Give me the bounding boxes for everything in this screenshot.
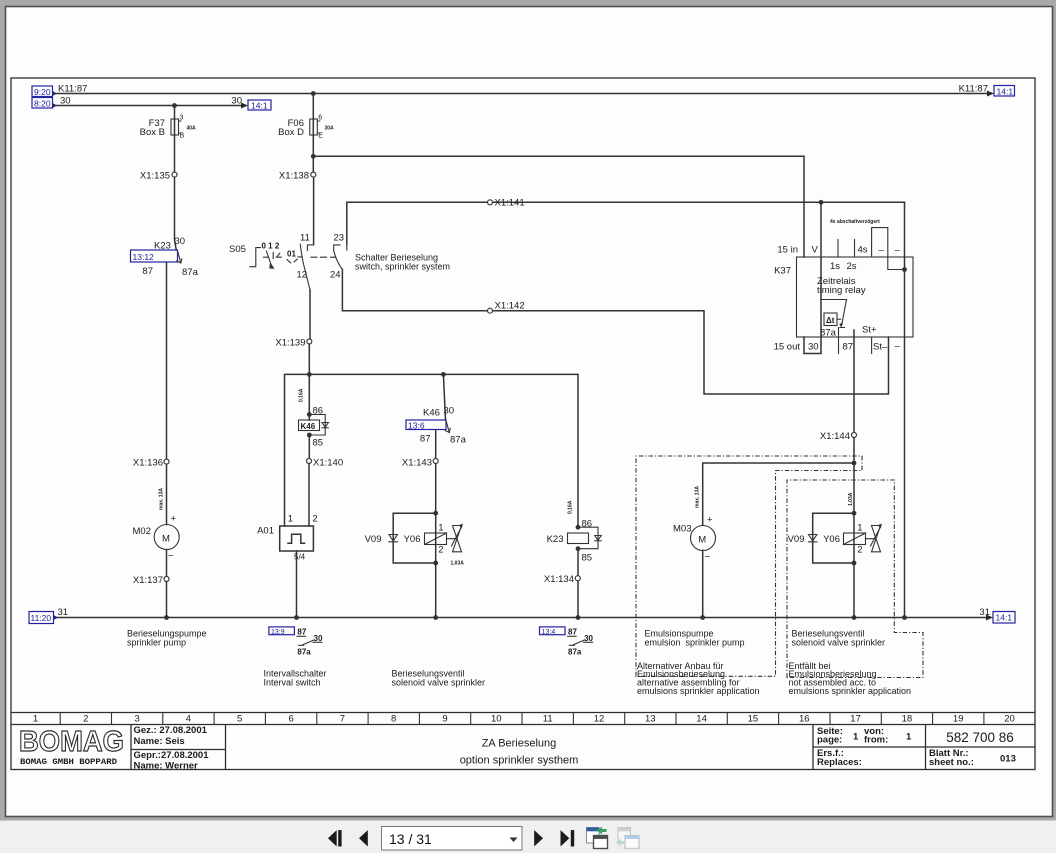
label 01 mechanical link [287, 250, 297, 263]
svg-text:2: 2 [857, 545, 862, 556]
cross-reference box 14:1 bottom [993, 612, 1015, 624]
terminal X1:142 [488, 308, 493, 313]
node rail right drop [902, 615, 907, 620]
svg-text:1: 1 [33, 714, 38, 725]
wire fuse F06 down to X1:138 [312, 135, 314, 172]
svg-text:30A: 30A [325, 126, 335, 132]
wire motor M02 to X1:137 [166, 550, 168, 577]
node valve2 bottom [852, 561, 857, 566]
svg-text:emulsions sprinkler applicatio: emulsions sprinkler application [789, 686, 912, 696]
BOMAG logo [19, 726, 124, 767]
svg-text:13:4: 13:4 [542, 629, 556, 636]
svg-text:14:1: 14:1 [997, 87, 1014, 97]
node valve1 bottom [433, 561, 438, 566]
wire valve1 to ground rail [435, 563, 437, 618]
svg-text:M: M [162, 534, 170, 545]
svg-text:X1:136: X1:136 [133, 458, 163, 469]
svg-text:013: 013 [1000, 754, 1016, 765]
svg-text:3: 3 [134, 714, 139, 725]
relay coil K46 with suppression diode [299, 415, 329, 436]
wire S05 pin 24 to X1:142 run [342, 270, 888, 395]
svg-text:11:20: 11:20 [31, 613, 52, 623]
node F37 on 30 rail [172, 103, 177, 108]
node X1:141 to relay V pin [819, 200, 824, 205]
svg-text:switch, sprinkler system: switch, sprinkler system [355, 262, 450, 272]
wire fuse F37 to X1:135 [174, 135, 176, 172]
svg-text:X1:135: X1:135 [140, 171, 170, 182]
svg-text:Interval switch: Interval switch [264, 678, 321, 688]
svg-text:40A: 40A [187, 126, 197, 132]
svg-text:30: 30 [314, 634, 323, 643]
svg-text:87: 87 [420, 434, 431, 445]
terminal X1:143 [433, 459, 438, 464]
node branch to timing relay supply [311, 154, 316, 159]
drawing frame border [11, 78, 1035, 770]
svg-text:Y06: Y06 [823, 534, 840, 545]
node K46 coil bottom [307, 433, 312, 438]
wire S05 pin 23 up to X1:141 line [346, 202, 348, 244]
toolbar next page button [534, 830, 543, 846]
svg-text:4: 4 [186, 714, 191, 725]
relay coil K23 with suppression diode [547, 527, 602, 549]
svg-text:87a: 87a [820, 328, 837, 339]
svg-text:11: 11 [543, 714, 553, 725]
node rail valve1 [433, 615, 438, 620]
svg-text:–: – [879, 245, 885, 256]
node rail valve2 [852, 615, 857, 620]
cross-reference box 14:1 mid [248, 100, 271, 111]
svg-text:4s: 4s [858, 245, 868, 256]
svg-text:01: 01 [287, 250, 296, 259]
cross-reference box 9:20 [32, 86, 57, 97]
node K46 coil branch [307, 372, 312, 377]
terminal X1:137 [164, 577, 169, 582]
svg-text:9: 9 [442, 714, 447, 725]
svg-text:10: 10 [491, 714, 502, 725]
motor M02 [133, 514, 180, 562]
svg-text:17: 17 [850, 714, 861, 725]
node K46 contact branch [441, 372, 446, 377]
svg-text:85: 85 [313, 438, 324, 449]
mechanical link dashes [311, 256, 336, 258]
terminal X1:141 [488, 200, 493, 205]
arrow into 14:1 mid [241, 103, 248, 109]
svg-text:8: 8 [391, 714, 396, 725]
toolbar last page button [561, 830, 575, 846]
svg-text:S05: S05 [229, 244, 246, 255]
svg-text:solenoid valve sprinkler: solenoid valve sprinkler [792, 638, 886, 648]
relay bottom pin St- stub [871, 337, 873, 354]
terminal X1:140 [307, 459, 312, 464]
relay pin stub 1s [837, 240, 839, 258]
toolbar next view icon [616, 828, 640, 849]
svg-text:A01: A01 [257, 526, 274, 537]
wire K11:87 top rail [53, 93, 989, 95]
wire X1:138 to switch S05 pin 11 [313, 177, 315, 244]
svg-text:St+: St+ [862, 325, 877, 336]
svg-text:1: 1 [857, 523, 862, 534]
wire X1:140 to A01 pin 2 [308, 464, 310, 526]
relay bottom pin labels [774, 341, 901, 353]
node valve2 top [852, 511, 857, 516]
svg-text:582 700 86: 582 700 86 [946, 730, 1014, 745]
svg-text:V09: V09 [365, 534, 382, 545]
svg-text:max. 13A: max. 13A [695, 486, 701, 508]
wire to relay 15in (top right run) [313, 156, 804, 257]
svg-text:K46: K46 [301, 422, 316, 431]
svg-text:24: 24 [330, 270, 341, 281]
wire M03 feed line [703, 463, 854, 525]
wire X1:144 down right branch [853, 438, 855, 618]
svg-text:–: – [895, 341, 901, 352]
node rail A01 [294, 615, 299, 620]
motor M03 [673, 515, 715, 563]
column ticks [60, 713, 984, 725]
svg-text:6: 6 [318, 115, 322, 122]
node K23 coil top [576, 525, 581, 530]
svg-text:30: 30 [175, 236, 186, 247]
svg-text:X1:140: X1:140 [313, 458, 343, 469]
svg-text:1: 1 [438, 523, 443, 534]
node F06 on K11:87 rail [311, 91, 316, 96]
svg-text:Box B: Box B [140, 127, 165, 138]
wire right side drop from X1:141 line [904, 202, 906, 617]
node rail K23 [576, 615, 581, 620]
timing relay K37 box [797, 257, 914, 337]
dashed box not assembled valve2 [787, 480, 923, 678]
terminal X1:135 [172, 172, 177, 177]
svg-text:–: – [895, 245, 901, 256]
svg-text:87a: 87a [182, 267, 199, 278]
node step wire to minus rail [902, 267, 907, 272]
svg-text:2: 2 [438, 545, 443, 556]
wire K46 coil to X1:140 [308, 435, 310, 459]
svg-text:Name: Werner: Name: Werner [134, 761, 199, 772]
node rail M02 [164, 615, 169, 620]
switch S05 rotary actuator [229, 242, 281, 269]
interval switch A01 [257, 514, 318, 562]
svg-text:14:1: 14:1 [996, 613, 1013, 623]
terminal X1:139 [307, 339, 312, 344]
relay pin 30 U-loop [804, 337, 821, 354]
wire rail to K46 contact [443, 374, 445, 420]
svg-text:−: − [168, 551, 174, 562]
relay inside labels [817, 261, 866, 296]
valve1 parallel loop [393, 513, 436, 563]
svg-text:16: 16 [799, 714, 810, 725]
svg-text:87a: 87a [568, 648, 582, 657]
svg-text:St–: St– [873, 342, 888, 353]
svg-text:30: 30 [231, 96, 242, 107]
svg-text:87: 87 [142, 266, 153, 277]
terminal X1:134 [575, 576, 580, 581]
svg-text:15 in: 15 in [777, 245, 798, 256]
wire X1:139 down to distribution rail [308, 344, 310, 374]
wire A01 output to ground rail [296, 551, 298, 618]
svg-text:87a: 87a [450, 435, 467, 446]
svg-text:3: 3 [180, 115, 184, 122]
svg-text:K37: K37 [774, 266, 791, 277]
svg-text:20: 20 [1004, 714, 1015, 725]
svg-text:emulsion sprinkler pump: emulsion sprinkler pump [645, 638, 745, 648]
svg-text:2: 2 [83, 714, 88, 725]
relay contact K23 13:12 [131, 236, 199, 278]
title block Gez row [134, 725, 210, 772]
relay top pin labels [777, 245, 900, 256]
svg-text:15: 15 [748, 714, 759, 725]
valve symbol valve1 [447, 524, 465, 567]
valve symbol valve2 [866, 524, 882, 552]
svg-text:page:: page: [817, 735, 842, 746]
svg-text:X1:143: X1:143 [402, 458, 432, 469]
toolbar background [0, 821, 1056, 853]
svg-text:1,03A: 1,03A [451, 561, 465, 567]
relay pin stub 2s [854, 240, 856, 258]
svg-text:M03: M03 [673, 524, 691, 535]
svg-text:Δt: Δt [826, 316, 835, 325]
wire 30 rail [53, 105, 242, 107]
svg-text:87: 87 [297, 628, 306, 637]
arrow into 14:1 bottom right [986, 615, 993, 621]
svg-text:86: 86 [582, 519, 593, 530]
svg-text:13:12: 13:12 [133, 252, 155, 262]
relay bottom pin 87 stub [838, 337, 840, 354]
wire K46 contact 87 to X1:143 [435, 430, 437, 459]
wire M03 to ground rail [702, 551, 704, 618]
svg-text:1s: 1s [830, 261, 840, 272]
toolbar previous view icon [587, 827, 608, 849]
relay 4s step wire [872, 228, 905, 270]
wire 30 rail to fuse F37 [174, 106, 176, 120]
svg-text:solenoid valve sprinkler: solenoid valve sprinkler [392, 678, 486, 688]
svg-text:Name: Seis: Name: Seis [134, 736, 185, 747]
cross-reference box 8:20 [32, 98, 57, 109]
svg-text:23: 23 [334, 233, 345, 244]
terminal X1:138 [311, 172, 316, 177]
svg-text:option sprinkler systhem: option sprinkler systhem [460, 755, 579, 767]
svg-text:85: 85 [582, 553, 593, 564]
svg-text:14:1: 14:1 [251, 101, 268, 111]
toolbar previous page button [359, 830, 368, 846]
fuse F06 Box D [278, 115, 334, 140]
svg-text:14: 14 [696, 714, 707, 725]
svg-text:X1:134: X1:134 [544, 574, 574, 585]
svg-text:13: 13 [645, 714, 656, 725]
svg-text:Box D: Box D [278, 127, 304, 138]
column numbers [33, 714, 1015, 725]
node rail M03 [700, 615, 705, 620]
contact cross-reference 13:4 [540, 627, 594, 657]
svg-text:1: 1 [853, 732, 859, 743]
svg-text:Gepr.:27.08.2001: Gepr.:27.08.2001 [134, 750, 210, 761]
toolbar page combo box [382, 827, 523, 851]
title block Seite/page [817, 726, 1016, 768]
svg-text:12: 12 [297, 270, 308, 281]
svg-text:30: 30 [60, 96, 71, 107]
svg-text:E: E [318, 133, 323, 140]
svg-text:+: + [171, 514, 177, 525]
svg-text:X1:139: X1:139 [275, 338, 305, 349]
terminal X1:136 [164, 459, 169, 464]
svg-text:X1:144: X1:144 [820, 431, 850, 442]
svg-text:K46: K46 [423, 408, 440, 419]
svg-text:13:9: 13:9 [271, 629, 285, 636]
svg-text:Y06: Y06 [404, 534, 421, 545]
wire X1:134 to ground rail [577, 581, 579, 618]
dashed box alternative assembly M03 [636, 456, 862, 676]
switch S05 contact 11-12 [297, 233, 314, 291]
contact cross-reference 13:9 [269, 627, 323, 657]
wire contact K23 87 to X1:136 [166, 263, 168, 460]
svg-text:X1:142: X1:142 [495, 301, 525, 312]
svg-text:13 / 31: 13 / 31 [389, 831, 432, 847]
wire X1:141 line [347, 201, 905, 203]
svg-text:K23: K23 [547, 534, 564, 545]
svg-text:emulsions sprinkler applicatio: emulsions sprinkler application [637, 686, 760, 696]
relay timer contact [820, 300, 847, 339]
svg-text:15 out: 15 out [774, 342, 801, 353]
svg-text:K11:87: K11:87 [58, 84, 87, 95]
wire rail to K46 coil [308, 374, 310, 420]
svg-text:87: 87 [568, 628, 577, 637]
svg-text:87a: 87a [297, 648, 311, 657]
svg-text:8:20: 8:20 [34, 99, 51, 109]
wire X1:135 to contact K23 [175, 177, 177, 250]
node M03 feed [852, 461, 857, 466]
node K46 coil top [307, 412, 312, 417]
terminal X1:144 [852, 433, 857, 438]
svg-text:1: 1 [288, 514, 293, 525]
svg-text:4s abschaltverzögert: 4s abschaltverzögert [830, 219, 880, 225]
toolbar first page button [328, 830, 342, 846]
svg-text:5: 5 [237, 714, 242, 725]
svg-text:0,16A: 0,16A [568, 500, 574, 514]
svg-text:BOMAG: BOMAG [19, 726, 124, 758]
svg-text:Gez.: 27.08.2001: Gez.: 27.08.2001 [134, 725, 208, 736]
svg-text:X1:141: X1:141 [495, 198, 525, 209]
switch S05 contact 23-24 [330, 233, 347, 281]
svg-text:K11:87: K11:87 [959, 84, 988, 95]
svg-text:M02: M02 [133, 526, 151, 537]
arrow into 14:1 top right [987, 91, 994, 97]
relay contact K46 13:6 [406, 406, 467, 446]
svg-text:11: 11 [300, 233, 310, 244]
svg-text:19: 19 [953, 714, 964, 725]
svg-text:30: 30 [808, 342, 819, 353]
wire relay St+ down to X1:144 [853, 330, 855, 433]
wire V pin down through relay [820, 202, 822, 337]
svg-text:V: V [812, 245, 819, 256]
svg-text:timing relay: timing relay [817, 285, 866, 296]
svg-text:M: M [698, 535, 706, 546]
svg-text:X1:138: X1:138 [279, 171, 309, 182]
wire K23 coil to X1:134 [577, 549, 579, 576]
cross-reference box 11:20 [29, 612, 58, 624]
node valve1 top [433, 511, 438, 516]
wire distribution rail y374 [285, 374, 579, 527]
svg-text:9:20: 9:20 [34, 87, 51, 97]
cross-reference box 14:1 top right [994, 86, 1015, 97]
svg-text:6: 6 [288, 714, 293, 725]
title block dividers [131, 725, 1035, 770]
svg-text:Replaces:: Replaces: [817, 757, 862, 768]
wire S05 pin12 to X1:139 [309, 290, 311, 339]
column strip lines [11, 713, 1035, 725]
svg-text:1,03A: 1,03A [848, 492, 854, 506]
svg-text:1: 1 [906, 732, 912, 743]
svg-text:30: 30 [584, 634, 593, 643]
fuse F37 Box B [140, 115, 196, 140]
valve2 parallel loop [813, 513, 854, 563]
wire X1:143 to valve group [435, 464, 437, 514]
svg-text:max. 13A: max. 13A [159, 488, 165, 510]
svg-text:0,16A: 0,16A [299, 388, 305, 402]
svg-text:2: 2 [312, 514, 317, 525]
diode V09 valve2 [788, 534, 817, 545]
svg-text:+: + [707, 515, 713, 526]
solenoid coil Y06 valve2 [823, 523, 865, 556]
svg-text:87: 87 [843, 342, 854, 353]
svg-text:30: 30 [444, 406, 455, 417]
svg-text:V09: V09 [788, 534, 805, 545]
svg-text:18: 18 [902, 714, 913, 725]
svg-text:ZA Berieselung: ZA Berieselung [482, 738, 557, 750]
wire X1:136 to motor M02 [166, 464, 168, 524]
svg-text:13:6: 13:6 [408, 421, 425, 431]
svg-text:2s: 2s [847, 261, 857, 272]
svg-text:B: B [180, 133, 185, 140]
wire ground rail 31 [57, 617, 988, 619]
wire K11:87 rail to fuse F06 [312, 94, 314, 120]
svg-text:sprinkler pump: sprinkler pump [127, 638, 186, 648]
node K23 coil bottom [576, 546, 581, 551]
svg-text:−: − [705, 552, 711, 563]
svg-text:12: 12 [594, 714, 605, 725]
svg-text:sheet no.:: sheet no.: [929, 757, 974, 768]
diode V09 valve1 [365, 534, 398, 545]
svg-text:X1:137: X1:137 [133, 575, 163, 586]
svg-text:7: 7 [340, 714, 345, 725]
svg-text:from:: from: [864, 735, 888, 746]
svg-text:BOMAG GMBH BOPPARD: BOMAG GMBH BOPPARD [20, 757, 117, 767]
svg-text:31: 31 [58, 607, 69, 618]
svg-text:0 1 2: 0 1 2 [262, 242, 280, 251]
solenoid coil Y06 valve1 [404, 523, 447, 556]
wire X1:137 to ground rail [166, 582, 168, 618]
